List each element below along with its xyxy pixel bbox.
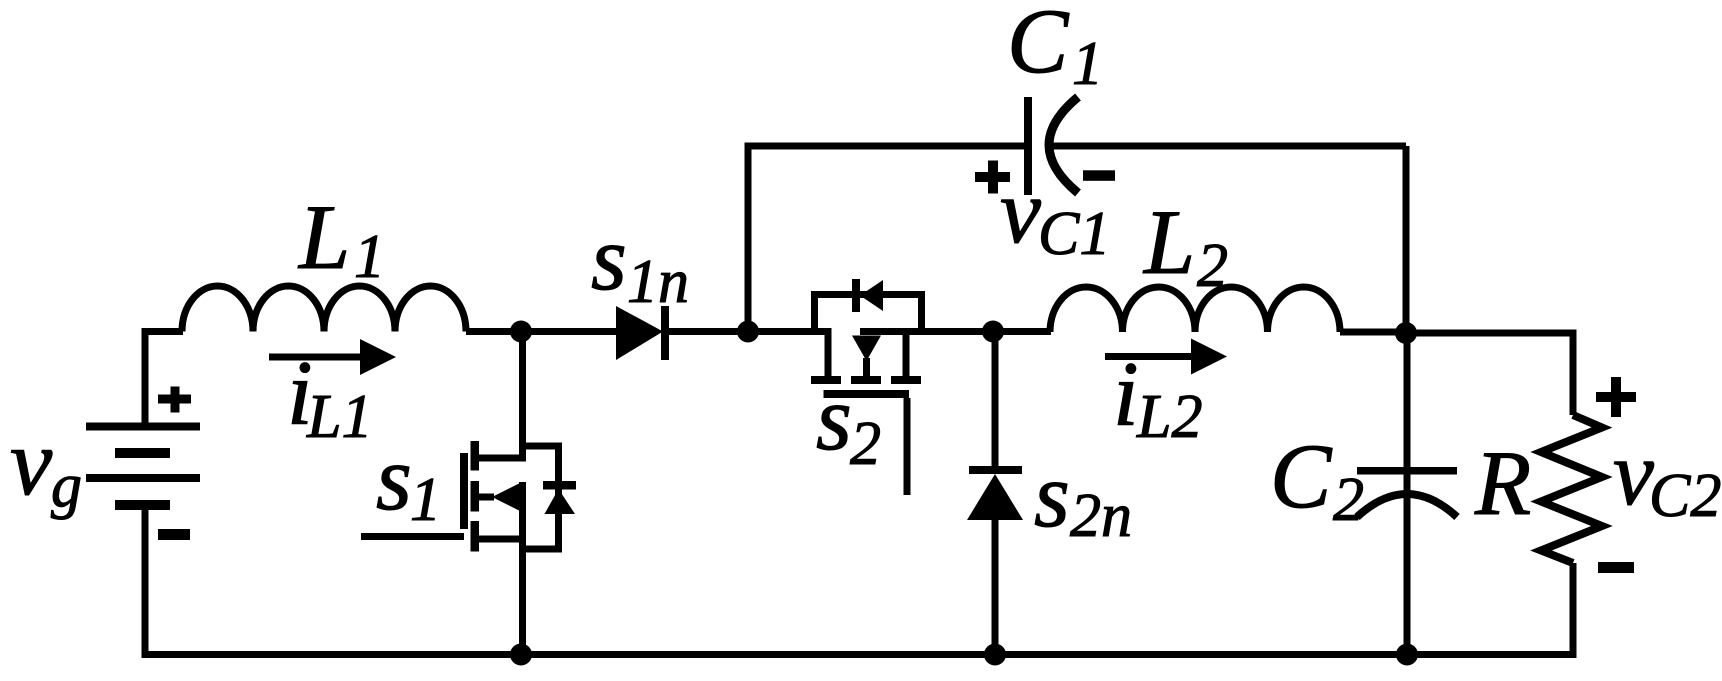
wire: battery negative terminal down to bottom rail [142,505,149,655]
transistor s2 drain lead corner [825,332,832,377]
node: C2 / bottom rail junction [1396,644,1418,666]
svg-text:v: v [1613,422,1654,524]
wire: bottom return rail [142,651,1577,658]
transistor s1 channel bars [471,441,480,552]
wire: L1 to diode s1n anode [466,328,618,335]
svg-text:1: 1 [410,466,441,534]
svg-text:L: L [297,186,350,288]
svg-text:R: R [1474,432,1531,534]
svg-text:L: L [1142,191,1195,293]
node D : output node [1395,322,1417,344]
svg-text:2: 2 [1197,232,1228,300]
transistor s2 body arrow [852,336,881,377]
label s1 [376,427,441,534]
transistor s1 body arrow [479,483,520,511]
svg-text:2: 2 [1333,466,1364,534]
svg-text:s: s [591,207,627,309]
svg-text:1: 1 [354,223,385,291]
svg-text:C: C [1007,0,1070,92]
node: s2n / bottom rail junction [984,644,1006,666]
transistor s2 gate bar [824,390,910,398]
label s2 [816,367,881,478]
svg-text:1: 1 [1072,30,1103,98]
wire: s1n cathode to s2 drain lead [667,328,832,335]
current arrow iL2 [1105,339,1227,375]
label C2 [1270,425,1364,534]
battery source vg plates [86,423,200,511]
svg-text:s: s [1034,444,1070,546]
wire: battery positive terminal up and right to L1 [145,332,183,428]
wire: s2 source to L2 [860,328,1051,335]
wire: C1 right riser down to output node [1403,146,1410,333]
transistor s1 body diode [543,481,576,514]
diode s1n [616,306,669,360]
node C : s2 source / s2n / L2 junction [982,321,1004,343]
polarity plus of vg [158,387,191,413]
node: s1 source / bottom rail junction [510,644,532,666]
transistor s1 body diode branch wires [523,446,559,549]
svg-text:L1: L1 [306,383,372,451]
capacitor C1 [1024,97,1078,195]
transistor s1 drain lead [475,332,526,459]
svg-text:v: v [10,409,53,515]
current arrow iL1 [269,339,396,375]
svg-text:2: 2 [850,410,881,478]
wire: resistor R bottom to rail [1570,563,1577,655]
transistor s2 channel bars [811,376,921,384]
polarity plus of C1 [975,161,1010,194]
node B : s1n cathode / C1 tap junction [737,321,759,343]
polarity minus of vC2 [1598,562,1634,573]
node A : L1 / s1 drain junction [510,321,532,343]
capacitor C2 riser from node D [1404,333,1411,493]
label L2 [1142,191,1228,300]
label L1 [297,186,385,291]
wire: output node to resistor R top [1406,333,1573,415]
resistor R zigzag [1541,415,1602,563]
wire: L2 to output node [1340,329,1406,336]
polarity minus of vg [158,529,190,540]
transistor s2 gate lead [904,398,911,495]
wire: C1 left riser from node B [745,146,752,332]
wire: top run node B to C1 left plate [745,143,1027,150]
transistor s1 gate lead [361,533,464,540]
polarity plus of vC2 [1596,377,1636,417]
label vg [10,409,82,520]
label s2n [1034,444,1132,550]
label iL1 [287,342,372,451]
inductor L1 [182,286,466,331]
diode s2n anode riser [992,332,999,468]
polarity minus of C1 [1083,170,1115,181]
diode s2n [967,466,1023,520]
svg-text:s: s [816,367,852,469]
inductor L2 [1050,287,1340,332]
label C1 [1007,0,1103,98]
svg-text:s: s [376,427,412,529]
svg-text:C1: C1 [1038,200,1110,268]
transistor s2 body diode branch wires [815,295,922,332]
diode s2n cathode wire to bottom rail [992,520,999,655]
label iL2 [1113,343,1202,451]
transistor s2 body diode [852,279,883,312]
svg-text:g: g [51,452,82,520]
wire: C1 right plate to right riser [1052,143,1406,150]
svg-text:i: i [1113,343,1139,445]
transistor s1 gate bar [460,453,468,529]
svg-text:C2: C2 [1649,462,1721,530]
label vC1 [1000,160,1110,268]
transistor s2 source lead riser [903,332,910,377]
svg-text:v: v [1000,160,1041,262]
svg-text:L2: L2 [1136,383,1202,451]
label vC2 [1613,422,1721,530]
svg-text:2n: 2n [1070,482,1132,550]
capacitor C2 [1357,467,1457,517]
transistor s1 source lead down to bottom rail [475,482,526,655]
capacitor C2 lower wire to bottom rail [1404,490,1411,655]
svg-text:C: C [1270,425,1333,527]
label s1n [591,207,689,316]
svg-text:1n: 1n [627,248,689,316]
